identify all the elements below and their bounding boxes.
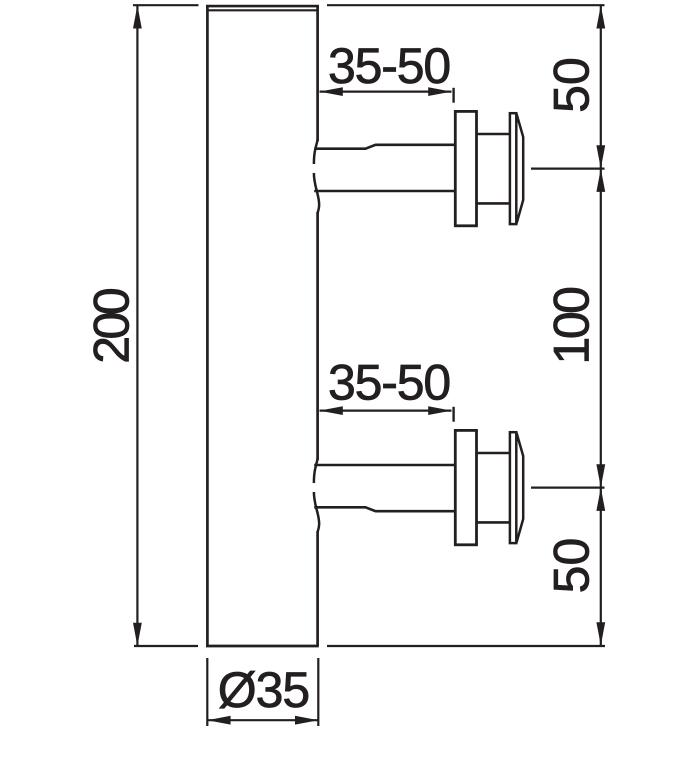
bolt 2 shaft bottom edge with step: [314, 507, 456, 511]
extension line bottom left for 200 dimension: [134, 645, 198, 647]
bolt 2 neck bottom line: [477, 521, 511, 524]
extension line bottom right: [327, 645, 605, 647]
arrowhead right 50 top segment end (down): [596, 145, 605, 168]
svg-text:35-50: 35-50: [328, 38, 450, 94]
handle tube top cap outer line: [206, 5, 319, 8]
handle tube top cap inner line: [207, 9, 319, 11]
arrowhead right bottom 50 bottom (down): [596, 622, 605, 645]
arrowhead 35-50 top left: [320, 87, 343, 96]
bolt 2 washer plate: [510, 432, 516, 543]
bolt 2 shaft top edge: [314, 464, 456, 467]
handle tube right edge S-curve above bolt 1: [314, 140, 318, 164]
bolt 1 head bevel profile: [517, 114, 524, 223]
svg-text:100: 100: [544, 288, 600, 365]
dimension line right column: [600, 6, 602, 646]
bolt 1 neck bottom line: [477, 202, 511, 205]
handle tube right edge middle segment: [316, 212, 319, 460]
svg-text:Ø35: Ø35: [218, 662, 310, 718]
extension line bolt 1 centerline: [531, 168, 605, 170]
arrowhead 200 bottom (down): [133, 623, 142, 646]
arrowhead right bottom 50 top (up): [596, 488, 605, 511]
arrowhead 35-50 bottom right: [428, 406, 451, 415]
arrowhead 200 top (up): [133, 5, 142, 28]
extension line bottom dia left: [206, 658, 208, 726]
extension line bottom dia right: [317, 658, 319, 726]
handle tube right edge upper segment: [316, 5, 319, 141]
arrowhead right 50 top (up): [596, 5, 605, 28]
handle tube right edge S-curve below bolt 2: [314, 492, 319, 532]
extension tick at bolt 2 flange for 35-50: [452, 407, 454, 422]
handle tube right edge lower segment: [316, 531, 319, 646]
bolt 1 flange: [455, 111, 476, 225]
arrowhead 35-50 bottom left: [320, 406, 343, 415]
bolt 1 neck top line: [477, 133, 511, 136]
extension line top right for 50 dimension: [327, 4, 605, 6]
handle tube bottom edge: [206, 645, 319, 648]
bolt 2 neck top line: [477, 452, 511, 455]
dimension line 35-50 bottom: [320, 410, 452, 412]
svg-text:35-50: 35-50: [328, 355, 450, 411]
bolt 2 head bevel profile: [517, 433, 524, 542]
svg-text:50: 50: [544, 57, 600, 113]
arrowhead dia35 left: [207, 716, 230, 725]
dimension line dia 35: [207, 719, 318, 721]
extension line bolt 2 centerline: [531, 487, 605, 489]
arrowhead right 100 top (up): [596, 169, 605, 192]
bolt 1 shaft bottom edge: [314, 190, 456, 193]
bolt 1 shaft top edge with step: [314, 145, 456, 149]
svg-text:200: 200: [84, 289, 140, 364]
bolt 2 flange: [455, 430, 476, 544]
svg-text:50: 50: [544, 538, 600, 594]
handle tube right edge S-curve above bolt 2: [314, 459, 318, 483]
arrowhead right 100 bottom (down): [596, 464, 605, 487]
handle tube left edge: [206, 5, 209, 646]
arrowhead 35-50 top right: [428, 87, 451, 96]
dimension line 200: [136, 6, 138, 646]
extension tick at bolt 1 flange for 35-50: [452, 88, 454, 103]
dimension line 35-50 top: [320, 90, 452, 92]
handle tube right edge S-curve below bolt 1: [314, 173, 319, 213]
bolt 1 washer plate: [510, 113, 516, 224]
extension line top left for 200 dimension: [133, 4, 199, 6]
arrowhead dia35 right: [295, 716, 318, 725]
